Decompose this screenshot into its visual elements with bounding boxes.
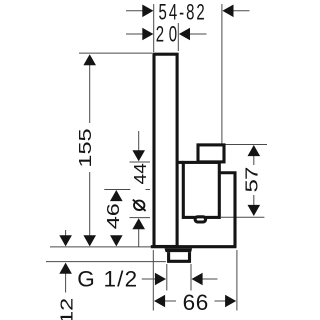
knob outline	[219, 173, 235, 247]
arrow G12 right	[192, 273, 203, 286]
wire ext line 54-82 left	[153, 4, 155, 52]
wire d44 tick bottom	[130, 217, 151, 219]
wire ext line 20 right	[177, 23, 179, 51]
wire dim 57	[253, 156, 255, 165]
arrow 54-82 right	[222, 5, 233, 18]
wire 66 ext right	[236, 250, 238, 311]
svg-text:66: 66	[183, 290, 209, 315]
arrow 46 top	[110, 190, 123, 201]
arrow 54-82 left	[142, 5, 153, 18]
arrow d44 top	[132, 150, 145, 161]
wire ext line 54-82 right	[221, 4, 223, 144]
wire dim d44	[138, 131, 140, 151]
clip tab	[195, 217, 206, 222]
main box top stub	[179, 161, 184, 164]
arrow 57 top	[248, 145, 261, 156]
svg-text:54-82: 54-82	[159, 0, 207, 24]
wire dim 112	[65, 230, 67, 236]
svg-text:44: 44	[130, 163, 150, 184]
wire 46 tick	[104, 189, 130, 191]
diameter symbol	[133, 200, 146, 211]
holder top box	[198, 145, 224, 162]
wire 66 ext left	[152, 250, 154, 311]
arrow 112 top	[59, 235, 72, 246]
wire nozzle ext right	[190, 264, 192, 291]
wire 57 bottom ref	[221, 216, 264, 218]
holder main box	[183, 162, 219, 217]
arrow 20 left	[142, 28, 153, 41]
arrow 155 bottom	[83, 235, 96, 246]
escutcheon bar	[154, 54, 177, 246]
wire bottom ref line	[50, 246, 152, 248]
wire G12 ref line	[46, 261, 166, 263]
nozzle flange	[165, 248, 193, 252]
wire dim 54-82	[126, 10, 143, 12]
arrow 66 left	[154, 295, 165, 308]
svg-text:57: 57	[242, 167, 261, 192]
body bottom line	[151, 245, 237, 248]
arrow 57 bottom	[248, 205, 261, 216]
svg-text:20: 20	[156, 22, 182, 47]
svg-text:46: 46	[104, 203, 123, 229]
arrow d44 bottom	[132, 218, 145, 229]
wire dim G12	[142, 278, 156, 280]
svg-text:112: 112	[57, 298, 76, 320]
arrow 46 bottom	[110, 235, 123, 246]
svg-text:155: 155	[76, 128, 95, 167]
wire d44 tick top	[130, 161, 151, 163]
arrow G12	[155, 273, 166, 286]
arrow 20 right	[179, 28, 190, 41]
arrow 112 bottom	[59, 263, 72, 274]
wire top ref line 155	[79, 52, 152, 54]
arrow 155 top	[83, 54, 96, 65]
wire nozzle ext left	[166, 264, 168, 291]
wire dim 20	[126, 33, 143, 35]
wire 57 top ref	[222, 144, 267, 146]
wire dim 155	[89, 64, 91, 123]
svg-text:G 1/2: G 1/2	[77, 267, 138, 292]
arrow 66 right	[225, 295, 236, 308]
nozzle stub	[169, 252, 190, 261]
wire dim 66	[165, 300, 177, 302]
